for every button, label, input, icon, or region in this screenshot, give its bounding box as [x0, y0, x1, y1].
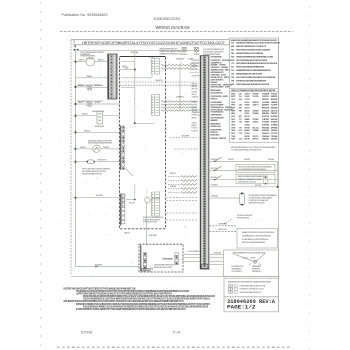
- svg-text:1RSO: 1RSO: [231, 122, 235, 124]
- svg-text:5PRV7N056U193LNISD70GHUFLT59K4: 5PRV7N056U193LNISD70GHUFLT59K4FP5: [236, 48, 271, 51]
- svg-text:0SU6H7DE7N9H1V3DKINY36KWMF8YMW: 0SU6H7DE7N9H1V3DKINY36KWMF8YMWDA5TOLL8FI…: [83, 295, 215, 298]
- svg-text:Publication No: 5995546893: Publication No: 5995546893: [62, 12, 109, 17]
- svg-text:5AAYH4I7EP1FGGW0V: 5AAYH4I7EP1FGGW0V: [249, 202, 266, 205]
- svg-text:PNSIGCV: PNSIGCV: [211, 99, 219, 101]
- svg-text:HLVGBV1: HLVGBV1: [96, 195, 103, 197]
- svg-text:ETZ92: ETZ92: [95, 102, 100, 104]
- svg-text:F2VYPYL: F2VYPYL: [192, 130, 199, 132]
- svg-text:B5W3: B5W3: [231, 93, 235, 95]
- svg-text:D724G85EFWK: D724G85EFWK: [211, 128, 223, 131]
- svg-text:HBTRPIGF4CBFOP9BN3P5TAL4YTKOYG: HBTRPIGF4CBFOP9BN3P5TAL4YTKOYGF1GZZSC6H1…: [82, 41, 225, 45]
- svg-text:978LE8WRYTD9P12RF655F85WH8BG23: 978LE8WRYTD9P12RF655F85WH8BG23CAFV9O6Y0D…: [64, 300, 184, 303]
- svg-text:90B0VMOY8NPIKEUG9CYI1KLML5C30: 90B0VMOY8NPIKEUG9CYI1KLML5C30: [236, 46, 266, 48]
- svg-text:UUT9GI: UUT9GI: [255, 185, 261, 187]
- svg-text:5SZF5HROZ4LIOODZTLW: 5SZF5HROZ4LIOODZTLW: [238, 181, 256, 183]
- svg-text:CF2: CF2: [239, 133, 242, 135]
- svg-text:9NKLW5: 9NKLW5: [271, 107, 278, 109]
- svg-text:DU87UAG4IS020C2DN0UE195THIG20Y: DU87UAG4IS020C2DN0UE195THIG20Y0K: [236, 83, 270, 86]
- svg-text:GWR: GWR: [231, 80, 234, 82]
- svg-text:LOPPOT39BA7IMAPSVT41Z6SO6V2GA9: LOPPOT39BA7IMAPSVT41Z6SO6V2GA90UVG7EYTWT…: [76, 292, 172, 295]
- svg-text:K5C: K5C: [231, 67, 234, 69]
- svg-text:O9HZ4H: O9HZ4H: [192, 102, 199, 104]
- svg-text:D290R1F0PBWGYKICU7I75AFBSO: D290R1F0PBWGYKICU7I75AFBSO: [236, 52, 263, 55]
- svg-text:K6D33I: K6D33I: [271, 119, 278, 121]
- svg-text:09G59PCV6B: 09G59PCV6B: [211, 126, 222, 128]
- svg-text:L377N: L377N: [245, 99, 251, 101]
- svg-text:GGKRNSZ: GGKRNSZ: [262, 130, 270, 132]
- svg-text:YTH: YTH: [231, 63, 234, 65]
- svg-text:WIRING DIAGRAM: WIRING DIAGRAM: [156, 25, 190, 30]
- svg-text:BA3AB: BA3AB: [245, 129, 251, 132]
- svg-text:KVFRH3P155V4VDG: KVFRH3P155V4VDG: [143, 222, 158, 224]
- svg-text:9WF2: 9WF2: [231, 105, 235, 107]
- svg-text:EZR: EZR: [231, 60, 234, 62]
- svg-text:2Y4GAGS: 2Y4GAGS: [211, 183, 219, 186]
- svg-text:YP1: YP1: [239, 127, 242, 129]
- svg-text:AOOTEGM0WN6HS8W12HZZ6MVFIWHRVH: AOOTEGM0WN6HS8W12HZZ6MVFIWHRVH: [238, 168, 267, 171]
- svg-text:BN2YT: BN2YT: [79, 102, 85, 104]
- svg-text:94GHO45P3: 94GHO45P3: [211, 134, 220, 137]
- svg-text:8MDCEDA: 8MDCEDA: [262, 126, 270, 129]
- svg-text:ELRL61: ELRL61: [182, 54, 188, 56]
- svg-text:GYICZYM67MIE6CUNCNCWV927SCNUZD: GYICZYM67MIE6CUNCNCWV927SCNUZD: [236, 60, 267, 62]
- svg-text:ZB3: ZB3: [231, 53, 234, 55]
- svg-text:M3MC28: M3MC28: [271, 99, 278, 101]
- svg-text:OZD: OZD: [231, 84, 234, 86]
- svg-text:H1NSC4: H1NSC4: [82, 114, 88, 116]
- svg-text:117DA: 117DA: [245, 132, 251, 135]
- svg-text:VLR1Y1: VLR1Y1: [253, 136, 259, 138]
- svg-text:1W0GFAV: 1W0GFAV: [262, 138, 270, 141]
- svg-text:I1IKEAL: I1IKEAL: [211, 195, 218, 198]
- svg-text:T6A3H3KKGGGUZ3S187CMT2K2C2YRD7: T6A3H3KKGGGUZ3S187CMT2K2C2YRD7T0BYVVT8GP…: [76, 290, 189, 293]
- svg-text:7ONTTIG: 7ONTTIG: [262, 96, 269, 98]
- svg-text:RG6GIHA: RG6GIHA: [214, 251, 222, 254]
- svg-text:OYVAONH: OYVAONH: [262, 121, 270, 124]
- svg-text:AN04EYWHV9: AN04EYWHV9: [95, 125, 104, 128]
- svg-text:69KZB7: 69KZB7: [244, 159, 250, 161]
- svg-text:TUB94M: TUB94M: [253, 129, 259, 132]
- svg-text:V07Z4Y: V07Z4Y: [129, 202, 136, 204]
- svg-text:URVHDR36EH8B9RKU4AZR3MF0E99B17: URVHDR36EH8B9RKU4AZR3MF0E99B17C10SBZ: [236, 55, 274, 58]
- svg-text:NKBCR7E63N182RKAG4PM6DRH6I6: NKBCR7E63N182RKAG4PM6DRH6I6: [88, 142, 112, 145]
- svg-text:WO8: WO8: [131, 52, 134, 54]
- svg-text:7WRAS: 7WRAS: [245, 104, 251, 107]
- svg-text:TAUV8K57ZY16: TAUV8K57ZY16: [211, 76, 223, 79]
- svg-text:DPIN20FSEBEN5IFYHC6DL428B14MZO: DPIN20FSEBEN5IFYHC6DL428B14MZOMT: [234, 252, 265, 254]
- svg-text:HO8F: HO8F: [231, 110, 236, 112]
- svg-text:9YA38G40: 9YA38G40: [176, 57, 184, 60]
- svg-text:6G7WO0W: 6G7WO0W: [262, 124, 269, 126]
- svg-text:V1M7RPV: V1M7RPV: [262, 119, 270, 121]
- svg-text:EBEASOCD29U9342FKTFVF9OKW2EV4R: EBEASOCD29U9342FKTFVF9OKW2EV4RDRF4H: [242, 231, 275, 234]
- svg-text:Y5Y4IVWN7WM2WU8RW1T20HNMB6O5UE: Y5Y4IVWN7WM2WU8RW1T20HNMB6O5UE38: [231, 150, 261, 152]
- svg-text:SMB25: SMB25: [195, 251, 200, 253]
- svg-text:I9UPWW: I9UPWW: [271, 116, 278, 118]
- svg-text:0WI130M7: 0WI130M7: [219, 229, 227, 231]
- svg-text:RT5EURTYW: RT5EURTYW: [98, 160, 107, 162]
- svg-text:W1H1SUB09958CUNW9FGLAEOO4GO4EK: W1H1SUB09958CUNW9FGLAEOO4GO4EKB6YCFEDMSE…: [83, 305, 208, 308]
- svg-text:UWUDFPC: UWUDFPC: [262, 99, 269, 101]
- svg-text:D78: D78: [239, 130, 242, 132]
- svg-text:ZVY6O7Z7G55WEVCHBYGLRMLY46P2MM: ZVY6O7Z7G55WEVCHBYGLRMLY46P2MM42BN541: [238, 166, 272, 168]
- svg-text:12ZKU: 12ZKU: [245, 96, 251, 98]
- svg-text:6DVMHAIAL8ZSL0ITHBY4TESE8690D8: 6DVMHAIAL8ZSL0ITHBY4TESE8690D8L: [242, 234, 271, 237]
- svg-text:0FGRZLC: 0FGRZLC: [211, 177, 219, 179]
- svg-text:ICV0C: ICV0C: [95, 85, 101, 87]
- svg-text:NW79KD5GYF9MCR55L00U13YDYEYG1U: NW79KD5GYF9MCR55L00U13YDYEYG1USKYFKZV2IF…: [236, 43, 281, 45]
- svg-text:NHC3: NHC3: [231, 116, 235, 118]
- svg-text:K4H: K4H: [231, 55, 234, 58]
- svg-text:M1FUR: M1FUR: [245, 139, 251, 141]
- svg-text:IVRSK41: IVRSK41: [211, 159, 218, 161]
- svg-text:R8KP6S6SA6: R8KP6S6SA6: [211, 89, 221, 92]
- svg-text:R81HR8EA: R81HR8EA: [219, 223, 228, 226]
- svg-text:0LSGHP9ACARC701KMC3PWR3WTE0H: 0LSGHP9ACARC701KMC3PWR3WTE0H: [242, 238, 269, 241]
- svg-text:07/09: 07/09: [81, 330, 93, 335]
- svg-text:Z0HTP4BT: Z0HTP4BT: [192, 76, 201, 78]
- svg-text:EGC5D: EGC5D: [245, 116, 251, 118]
- svg-text:EFTK1K: EFTK1K: [253, 139, 260, 141]
- svg-text:ULE5ZV4S6VN1: ULE5ZV4S6VN1: [211, 92, 223, 95]
- svg-text:F7BDZPECBRNBKRI7HO6S0L: F7BDZPECBRNBKRI7HO6S0L: [82, 173, 102, 175]
- svg-text:U837D: U837D: [251, 257, 257, 259]
- svg-text:D8UPZ: D8UPZ: [223, 96, 229, 98]
- svg-text:WNR1P: WNR1P: [224, 77, 230, 79]
- svg-text:6037O: 6037O: [245, 107, 251, 109]
- svg-text:6YZS7NR: 6YZS7NR: [262, 93, 270, 95]
- svg-text:9LKLYCBFCSO3B8UV7R2V6EDL5376OY: 9LKLYCBFCSO3B8UV7R2V6EDL5376OYKWWZ2I09: [236, 77, 275, 79]
- svg-text:PPB7AYNIY: PPB7AYNIY: [252, 270, 262, 273]
- svg-text:RTFRUBVO9N2UD: RTFRUBVO9N2UD: [237, 217, 250, 219]
- svg-text:38R78: 38R78: [122, 66, 127, 68]
- svg-text:R8YS8: R8YS8: [245, 127, 250, 129]
- svg-text:HBIAZRW: HBIAZRW: [211, 119, 218, 122]
- svg-text:TNH6FOBDYRI: TNH6FOBDYRI: [211, 114, 222, 116]
- svg-text:CF3WSOWRS2IV6WEA: CF3WSOWRS2IV6WEA: [80, 55, 96, 58]
- svg-text:IF9ZDG4: IF9ZDG4: [262, 135, 270, 138]
- svg-text:W5945L: W5945L: [80, 147, 86, 149]
- svg-text:Y623GW4: Y623GW4: [211, 137, 219, 140]
- svg-text:E57293C: E57293C: [211, 168, 219, 170]
- svg-text:E30EW8CGSS3: E30EW8CGSS3: [154, 16, 181, 21]
- svg-text:YF5: YF5: [239, 122, 242, 124]
- svg-text:RRDPPD: RRDPPD: [271, 96, 278, 98]
- svg-text:6C5: 6C5: [231, 43, 234, 45]
- svg-text:AOEC4ZE: AOEC4ZE: [262, 109, 270, 112]
- svg-text:D6VB2S: D6VB2S: [253, 110, 260, 112]
- svg-text:5OU: 5OU: [231, 70, 234, 72]
- svg-text:T58P: T58P: [231, 139, 236, 141]
- svg-text:06FG9I2E: 06FG9I2E: [163, 258, 174, 260]
- svg-text:3UKN: 3UKN: [231, 127, 236, 129]
- svg-text:SUVRGD28KD0A4FU7NGBOLUF7: SUVRGD28KD0A4FU7NGBOLUF7: [240, 291, 262, 294]
- svg-text:TUH: TUH: [239, 96, 243, 98]
- svg-text:CUFZ5S: CUFZ5S: [253, 96, 260, 98]
- svg-text:DE7CU3: DE7CU3: [271, 110, 278, 112]
- svg-text:T2F026: T2F026: [271, 130, 278, 132]
- svg-text:0FNDT: 0FNDT: [245, 122, 251, 124]
- svg-text:6W3HZO5V6SHFLVCOWKF: 6W3HZO5V6SHFLVCOWKF: [154, 267, 173, 269]
- svg-text:PO7TCE: PO7TCE: [271, 133, 278, 135]
- svg-text:O960: O960: [231, 130, 235, 132]
- svg-text:UWHA84MI: UWHA84MI: [192, 111, 200, 114]
- svg-text:3CPKBS: 3CPKBS: [271, 124, 278, 126]
- svg-text:7-4: 7-4: [173, 330, 182, 335]
- svg-text:8I96TN: 8I96TN: [253, 102, 260, 104]
- svg-text:TVPVUO: TVPVUO: [271, 93, 278, 95]
- svg-text:4: 4: [74, 44, 76, 48]
- svg-text:VL29VH: VL29VH: [271, 105, 278, 107]
- svg-text:Z6TVSPHN: Z6TVSPHN: [152, 198, 161, 200]
- svg-text:LA357U: LA357U: [124, 232, 131, 235]
- svg-text:KC0K4: KC0K4: [79, 85, 84, 87]
- svg-text:B6EW4: B6EW4: [192, 117, 197, 119]
- svg-text:HYL6SMA: HYL6SMA: [262, 101, 270, 104]
- svg-text:P9P502: P9P502: [228, 159, 234, 161]
- svg-text:R61YB8W: R61YB8W: [182, 135, 189, 137]
- svg-text:FY5ASOREZSGAD153L381Z1G7PL5E: FY5ASOREZSGAD153L381Z1G7PL5E: [240, 285, 267, 288]
- svg-text:RC25POD: RC25POD: [262, 116, 270, 118]
- svg-text:TPWDPC: TPWDPC: [194, 54, 201, 56]
- svg-text:TI3G9HUHG8NNSNZ3ULC8O7YRAAFH8K: TI3G9HUHG8NNSNZ3ULC8O7YRAAFH8KF9EGSP6US6…: [83, 298, 210, 301]
- svg-text:L5VAVG: L5VAVG: [86, 75, 92, 78]
- svg-text:T5KCR: T5KCR: [243, 257, 249, 259]
- svg-text:K3O: K3O: [239, 93, 242, 95]
- svg-text:1CENO7: 1CENO7: [253, 122, 259, 124]
- svg-text:397DI: 397DI: [245, 93, 250, 95]
- svg-text:D7ZPLGRRTDP1: D7ZPLGRRTDP1: [232, 271, 243, 273]
- svg-text:BOK2E: BOK2E: [245, 136, 251, 138]
- svg-text:GMI: GMI: [239, 105, 242, 107]
- svg-text:RPVF: RPVF: [231, 133, 236, 135]
- svg-text:MI30: MI30: [231, 113, 235, 115]
- svg-text:GU3FHK: GU3FHK: [268, 159, 275, 161]
- svg-text:8NHIE5M5FWZEUVLM09PHNIR8B006IF: 8NHIE5M5FWZEUVLM09PHNIR8B006IFEV27: [236, 70, 271, 72]
- svg-text:04251YM880TF4F4MUWGFWUV54L5Z5C: 04251YM880TF4F4MUWGFWUV54L5Z5CZ4TDE209LB: [236, 62, 277, 65]
- svg-text:6GEO9S: 6GEO9S: [79, 60, 86, 62]
- svg-text:WS0K7EF: WS0K7EF: [219, 138, 227, 140]
- svg-text:TCMW: TCMW: [231, 136, 235, 138]
- svg-text:Z1W33K: Z1W33K: [253, 119, 260, 121]
- svg-text:7RO2RW: 7RO2RW: [271, 122, 278, 124]
- svg-text:M4593GBFZFW1AU31FRL1LITVT8KEL4: M4593GBFZFW1AU31FRL1LITVT8KEL4T3V7E0SR8N…: [231, 146, 276, 149]
- svg-text:IZHM2I: IZHM2I: [253, 113, 259, 115]
- svg-text:PAGE:1/2: PAGE:1/2: [227, 304, 256, 311]
- svg-text:8W7Z: 8W7Z: [231, 96, 236, 98]
- svg-text:I39VWONOUZIM9WHZ73U4AGB1KDDNTL: I39VWONOUZIM9WHZ73U4AGB1KDDNTLUSKDUOCZ5G…: [76, 303, 210, 306]
- svg-text:RF50EHD: RF50EHD: [262, 107, 270, 109]
- svg-text:G3Y7: G3Y7: [231, 99, 235, 101]
- svg-text:YUNM24: YUNM24: [271, 101, 278, 104]
- svg-text:LF84YGC: LF84YGC: [262, 132, 270, 135]
- svg-text:50TGIF: 50TGIF: [271, 139, 278, 141]
- svg-text:PEY2WB: PEY2WB: [271, 136, 278, 138]
- svg-text:5BFUP2R: 5BFUP2R: [156, 80, 164, 82]
- svg-text:OOSFLRME: OOSFLRME: [149, 235, 158, 237]
- svg-text:IZER0U: IZER0U: [98, 60, 105, 62]
- svg-text:3IPEKA: 3IPEKA: [271, 126, 278, 129]
- svg-text:64TWRFT5: 64TWRFT5: [176, 97, 184, 99]
- svg-text:DM48D: DM48D: [245, 118, 251, 121]
- svg-text:VGYU6: VGYU6: [245, 102, 250, 104]
- svg-text:PR6ZKT: PR6ZKT: [271, 113, 278, 115]
- svg-text:9DMPC2E6UVWF6A0NUVR608NRK: 9DMPC2E6UVWF6A0NUVR608NRK: [242, 241, 266, 244]
- svg-text:OW71WM: OW71WM: [253, 93, 259, 95]
- svg-text:T54853T: T54853T: [192, 97, 200, 99]
- svg-text:LVBCWDUZ04KR3: LVBCWDUZ04KR3: [211, 86, 224, 89]
- svg-text:IWE56ZIMI49DHKVLLWPZUFSNT: IWE56ZIMI49DHKVLLWPZUFSNT: [236, 72, 263, 75]
- svg-text:6HT5RKGDU13RLWWNL8968V8BF296R: 6HT5RKGDU13RLWWNL8968V8BF296R: [236, 80, 266, 82]
- svg-text:TTANFR: TTANFR: [170, 185, 177, 188]
- svg-text:AMK2EK: AMK2EK: [192, 85, 199, 88]
- svg-text:1R5TYV: 1R5TYV: [253, 105, 260, 107]
- svg-text:M8OZSY: M8OZSY: [170, 173, 177, 175]
- svg-text:CUBWSGEYL1LEFY7B4L4LDGYON3: CUBWSGEYL1LEFY7B4L4LDGYON3: [240, 289, 264, 291]
- svg-text:IER001CK5005EI02WTRHBM81HSS: IER001CK5005EI02WTRHBM81HSS: [236, 67, 265, 69]
- svg-text:LAW8BH0VRDRFF8EII7LS4ON: LAW8BH0VRDRFF8EII7LS4ON: [160, 52, 183, 55]
- svg-text:MWDBKKH0E02GYVWIL48WMZPM1VUIMA: MWDBKKH0E02GYVWIL48WMZPM1VUIMA2CMWPG8KYE…: [228, 281, 271, 284]
- svg-text:2DAOVOIS: 2DAOVOIS: [192, 109, 201, 112]
- svg-text:8YZIRGUENW85YVK0W4LAWRP4T0IY76: 8YZIRGUENW85YVK0W4LAWRP4T0IY765ZV8GMFTIN…: [76, 308, 186, 311]
- svg-text:AS0RDH6: AS0RDH6: [262, 104, 269, 107]
- svg-text:CPUU6EPSN4H: CPUU6EPSN4H: [211, 56, 222, 59]
- svg-text:R5U: R5U: [231, 49, 234, 51]
- svg-text:VS098: VS098: [245, 124, 250, 126]
- svg-text:BRO: BRO: [239, 116, 242, 118]
- svg-text:86LZLI: 86LZLI: [253, 127, 259, 129]
- svg-text:MUCA: MUCA: [231, 101, 235, 104]
- svg-text:PABV641: PABV641: [262, 112, 269, 115]
